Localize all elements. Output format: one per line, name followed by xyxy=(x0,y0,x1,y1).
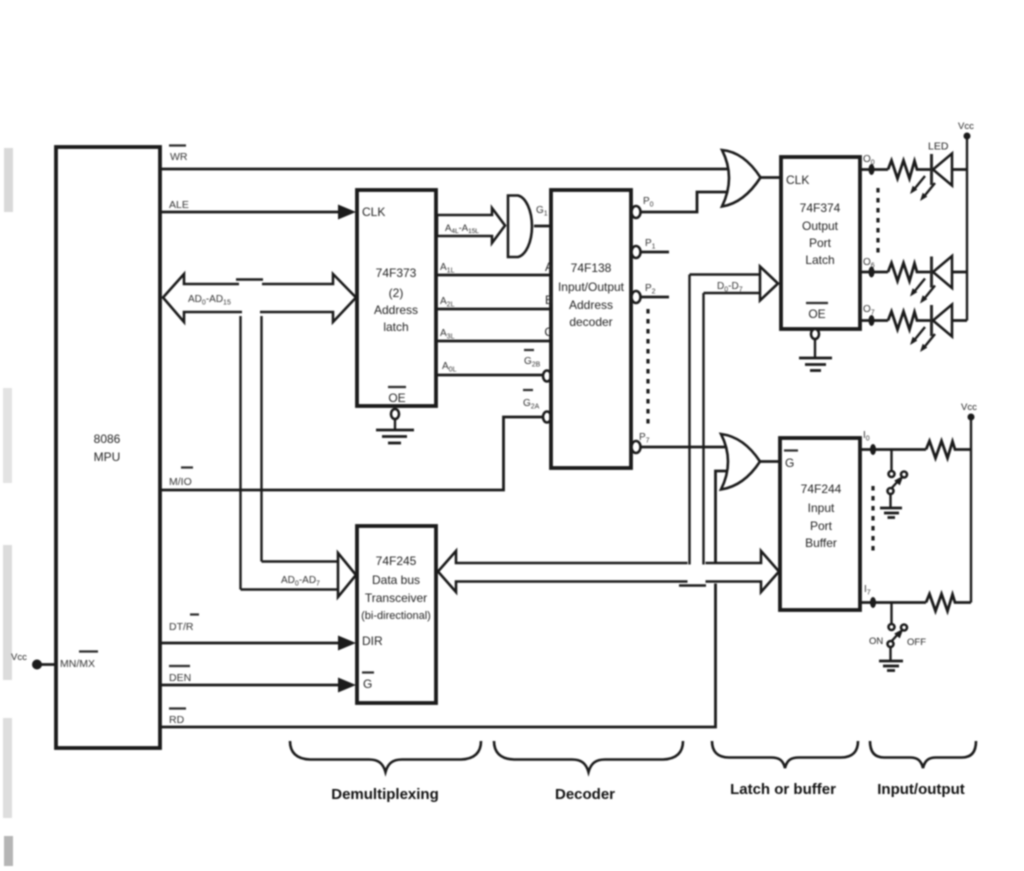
svg-text:MPU: MPU xyxy=(94,450,121,464)
brace decoder xyxy=(494,741,683,803)
scan artifact streaks left edge xyxy=(3,148,13,866)
OE pin label of 74F374 xyxy=(806,303,828,321)
svg-text:Address: Address xyxy=(374,303,418,317)
svg-text:DIR: DIR xyxy=(362,634,383,648)
G1 label xyxy=(536,205,548,218)
svg-text:Vcc: Vcc xyxy=(961,402,977,413)
svg-text:Vcc: Vcc xyxy=(11,652,27,663)
G pin label of 74F245 xyxy=(362,673,374,692)
74F373 address latch U2 xyxy=(357,190,436,406)
node O6 xyxy=(860,267,888,278)
wire WR to OR gate G1a xyxy=(160,168,730,171)
RD pin label xyxy=(169,709,186,727)
G2A label xyxy=(523,390,540,411)
svg-text:C: C xyxy=(544,325,553,339)
wire P7 to lower OR gate xyxy=(641,446,730,449)
svg-text:D0-D7: D0-D7 xyxy=(717,281,743,294)
svg-text:A1L: A1L xyxy=(440,262,455,275)
svg-text:74F138: 74F138 xyxy=(571,261,612,275)
P2 label xyxy=(645,283,656,296)
svg-text:G: G xyxy=(785,456,794,470)
svg-text:Latch or buffer: Latch or buffer xyxy=(730,781,836,798)
svg-text:74F373: 74F373 xyxy=(376,266,417,280)
svg-text:DEN: DEN xyxy=(169,672,191,684)
svg-text:I7: I7 xyxy=(864,584,871,597)
wire P0 to OR gate xyxy=(641,192,730,212)
svg-text:P7: P7 xyxy=(639,432,650,445)
svg-text:Vcc: Vcc xyxy=(958,121,974,132)
svg-text:Port: Port xyxy=(810,519,833,533)
wire P2 stub xyxy=(641,296,670,299)
svg-text:Input/Output: Input/Output xyxy=(558,280,625,294)
ON label xyxy=(869,636,883,647)
svg-text:A3L: A3L xyxy=(440,328,455,341)
svg-text:G1: G1 xyxy=(536,205,548,218)
ground at S1 xyxy=(880,495,902,518)
svg-text:74F244: 74F244 xyxy=(801,482,842,496)
svg-text:decoder: decoder xyxy=(569,315,612,329)
svg-text:M/IO: M/IO xyxy=(169,476,192,488)
wire DT/R to 74F245 DIR xyxy=(160,636,356,651)
ground at S2 xyxy=(879,648,903,671)
Vcc rail for inputs xyxy=(968,414,975,603)
svg-text:latch: latch xyxy=(383,320,408,334)
MN/MX pin label xyxy=(60,652,98,671)
svg-text:ALE: ALE xyxy=(169,199,189,211)
resistor R4 xyxy=(926,441,971,458)
svg-text:LED: LED xyxy=(928,141,949,153)
svg-text:(bi-directional): (bi-directional) xyxy=(361,610,431,622)
switch S1 xyxy=(888,450,908,495)
svg-text:P2: P2 xyxy=(645,283,656,296)
P1 label xyxy=(645,238,656,251)
svg-text:Transceiver: Transceiver xyxy=(365,591,427,605)
svg-text:Output: Output xyxy=(802,219,839,233)
brace demultiplexing xyxy=(290,741,481,803)
svg-text:Data bus: Data bus xyxy=(372,573,420,587)
bubble on G2A xyxy=(543,412,551,423)
resistor R5 xyxy=(926,594,971,611)
dotted continuation O0..O6 xyxy=(876,188,879,255)
wire DEN to 74F245 G xyxy=(160,678,356,693)
svg-text:AD0-AD7: AD0-AD7 xyxy=(281,575,320,588)
svg-text:OE: OE xyxy=(388,391,405,405)
bus D0-D7 between 74F245 and 74F244 xyxy=(438,281,779,592)
svg-text:DT/R: DT/R xyxy=(169,621,194,633)
bubble P7 xyxy=(632,441,641,453)
O6 label xyxy=(863,257,875,270)
svg-text:74F374: 74F374 xyxy=(800,201,841,215)
bus A4L-A15L from 74F373 to gate xyxy=(437,208,505,243)
svg-text:G2B: G2B xyxy=(524,356,541,369)
OR gate U8 (read strobe) xyxy=(721,434,760,490)
dotted continuation P2..P7 xyxy=(646,309,649,427)
8086 MPU block U1 xyxy=(56,147,160,748)
wire P1 stub xyxy=(641,251,670,254)
svg-text:Address: Address xyxy=(569,298,613,312)
svg-text:A: A xyxy=(545,260,553,274)
Vcc label right middle xyxy=(961,402,977,413)
svg-text:G2A: G2A xyxy=(523,398,540,411)
wire ALE to 74F373 CLK xyxy=(160,205,356,220)
wire OR output to 74F244 G xyxy=(760,460,781,463)
svg-text:Input/output: Input/output xyxy=(877,781,964,798)
wire M/IO to 74F138 G2A xyxy=(160,417,542,490)
svg-text:MN/MX: MN/MX xyxy=(60,658,95,670)
74F245 data bus transceiver U7 xyxy=(357,526,436,703)
Vcc label at MN/MX xyxy=(11,652,27,663)
I7 label xyxy=(864,584,871,597)
74F138 decoder U4 xyxy=(544,190,631,468)
svg-text:Port: Port xyxy=(809,236,832,250)
dotted continuation I0..I7 xyxy=(871,486,874,554)
bubble P0 xyxy=(632,206,641,218)
svg-text:A0L: A0L xyxy=(442,361,457,374)
LED D2 xyxy=(910,256,967,304)
wire A2L to decoder B xyxy=(436,296,551,309)
O7 label xyxy=(863,304,875,317)
svg-text:RD: RD xyxy=(169,714,185,726)
switch S2 xyxy=(888,603,908,648)
DT/R pin label xyxy=(169,615,199,634)
ALE pin label xyxy=(169,199,189,211)
wire A3L to decoder C xyxy=(436,328,551,341)
74F244 input port buffer U9 xyxy=(780,438,860,610)
brace latch or buffer xyxy=(712,741,858,798)
svg-text:P0: P0 xyxy=(643,196,654,209)
svg-text:ON: ON xyxy=(869,636,883,647)
gate U3 (address qualifier, D-shape) xyxy=(508,196,532,258)
resistor R3 xyxy=(888,312,930,330)
wire A1L to decoder A xyxy=(436,262,551,275)
74F374 output port latch U6 xyxy=(781,157,860,329)
svg-text:8086: 8086 xyxy=(94,432,121,446)
svg-text:Decoder: Decoder xyxy=(555,786,615,803)
wire A0L to decoder G2B xyxy=(436,361,542,375)
bubble on 74F374 OE xyxy=(811,329,819,339)
DEN pin label xyxy=(169,666,191,684)
node O7 xyxy=(860,315,888,326)
svg-text:WR: WR xyxy=(170,151,188,163)
svg-text:CLK: CLK xyxy=(362,205,385,219)
LED D1 xyxy=(910,154,967,202)
resistor R2 xyxy=(888,263,930,281)
svg-text:O7: O7 xyxy=(863,304,875,317)
M/IO pin label xyxy=(169,468,193,489)
svg-text:B: B xyxy=(545,293,553,307)
svg-text:Input: Input xyxy=(808,501,835,515)
ground at 74F373 OE xyxy=(376,419,414,443)
I0 label xyxy=(863,430,870,443)
svg-text:P1: P1 xyxy=(645,238,656,251)
LED label xyxy=(928,141,949,153)
svg-text:O0: O0 xyxy=(863,154,875,167)
WR pin label xyxy=(169,146,188,164)
bus AD0-AD15 xyxy=(163,274,356,322)
svg-text:G: G xyxy=(363,677,372,691)
G2B label xyxy=(524,350,541,369)
Vcc rail for LEDs xyxy=(964,133,971,321)
Vcc label top right xyxy=(958,121,974,132)
O0 label xyxy=(863,154,875,167)
ground at 74F374 OE xyxy=(799,339,832,371)
svg-text:Buffer: Buffer xyxy=(805,536,837,550)
OE pin label of 74F373 xyxy=(388,387,406,405)
wire gate output to 74F138 G1 xyxy=(534,225,551,228)
svg-text:Demultiplexing: Demultiplexing xyxy=(331,786,439,803)
svg-text:A2L: A2L xyxy=(440,296,455,309)
LED D3 xyxy=(910,305,967,353)
svg-text:Latch: Latch xyxy=(805,253,834,267)
node O0 xyxy=(860,164,888,175)
svg-text:I0: I0 xyxy=(863,430,870,443)
svg-text:OE: OE xyxy=(808,307,825,321)
wire RD along bottom up to OR gate G2b xyxy=(160,471,729,727)
node I7 xyxy=(860,597,926,608)
OR gate U5 (write strobe) xyxy=(722,150,761,207)
node I0 xyxy=(860,444,926,455)
svg-text:CLK: CLK xyxy=(786,173,809,187)
brace input/output xyxy=(870,741,976,798)
resistor R1 xyxy=(888,161,930,179)
bus D0-D7 riser to 74F374 xyxy=(690,267,779,565)
bubble on G2B xyxy=(543,371,551,382)
bubble P2 xyxy=(632,291,641,303)
svg-text:OFF: OFF xyxy=(907,637,926,648)
svg-text:(2): (2) xyxy=(389,286,404,300)
P7 label xyxy=(639,432,650,445)
wire OR output to 74F374 CLK xyxy=(760,176,781,179)
bubble on 74F373 OE xyxy=(391,409,399,419)
P0 label xyxy=(643,196,654,209)
bus AD0-AD7 vertical drop to 74F245 xyxy=(241,316,357,597)
OFF label xyxy=(907,637,926,648)
wire Vcc to MN/MX with node dot xyxy=(32,660,57,670)
bubble P1 xyxy=(632,246,641,258)
svg-text:74F245: 74F245 xyxy=(376,554,417,568)
